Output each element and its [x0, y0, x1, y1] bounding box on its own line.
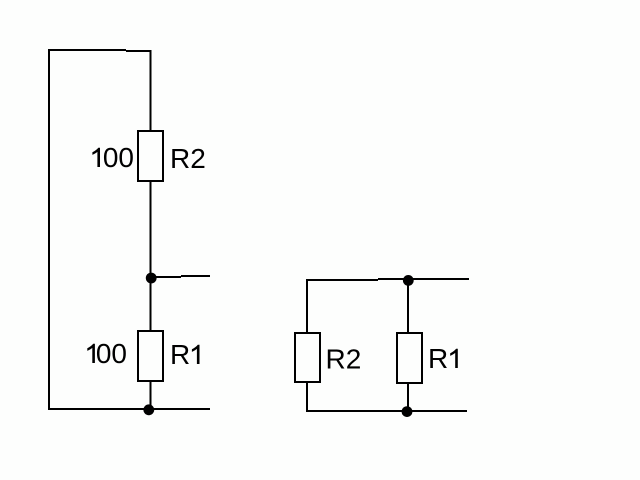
wire: middle node stub segment 1	[151, 276, 181, 278]
svg-text:R2: R2	[326, 344, 362, 375]
wire: middle node to R1 top lead	[150, 277, 152, 331]
junction node: middle node of series circuit	[146, 273, 157, 284]
wire: left circuit left vertical rail	[48, 49, 50, 410]
wire: right R1 top lead	[407, 279, 409, 333]
resistor R2 (right circuit)	[295, 333, 320, 382]
wire: R1 bottom lead	[150, 381, 152, 409]
svg-text:00: 00	[96, 338, 127, 369]
wire: right circuit bottom rail	[306, 410, 467, 412]
resistor R1 (right circuit)	[397, 333, 422, 383]
resistor R1 (left circuit, 100 ohm)	[138, 331, 163, 381]
svg-text:R2: R2	[170, 143, 206, 174]
wire: left circuit top rail segment 2	[126, 50, 152, 52]
svg-text:R: R	[170, 339, 190, 370]
junction node: right circuit bottom node	[402, 406, 413, 417]
wire: left circuit bottom rail	[48, 408, 210, 410]
junction node: left circuit bottom node	[143, 404, 154, 415]
svg-text:R: R	[428, 343, 448, 374]
wire: right circuit top rail segment 2	[378, 278, 469, 280]
wire: right R1 bottom lead	[407, 383, 409, 412]
wire: R2 top lead	[150, 50, 152, 131]
svg-text:00: 00	[103, 142, 134, 173]
wire: right circuit top rail segment 1	[306, 279, 378, 281]
junction node: right circuit top node	[403, 275, 414, 286]
wire: R2 bottom lead to middle node	[150, 181, 152, 277]
wire: right R2 bottom lead	[306, 382, 308, 412]
wire: right R2 top lead	[306, 279, 308, 333]
wire: middle node stub segment 2	[181, 275, 210, 277]
wire: left circuit top rail segment 1	[48, 49, 126, 51]
resistor R2 (left circuit, 100 ohm)	[138, 131, 163, 181]
